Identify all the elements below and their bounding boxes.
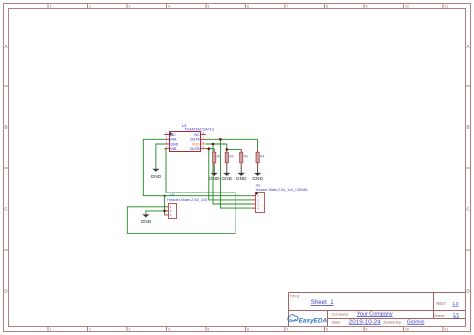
svg-text:7: 7 <box>287 5 289 9</box>
wire OUTA horizontal to R4 column <box>206 138 258 140</box>
svg-text:6: 6 <box>247 328 249 332</box>
svg-text:9: 9 <box>366 5 368 9</box>
wire R2 top across to R3 top <box>227 148 241 151</box>
ground at U1 GND pin <box>151 169 162 180</box>
svg-text:VDD: VDD <box>192 142 200 146</box>
ground under R2 <box>222 166 233 183</box>
EasyEDA logo text <box>299 317 328 324</box>
svg-text:GND: GND <box>222 176 233 182</box>
ground under R3 <box>236 166 247 183</box>
EasyEDA logo cloud icon <box>288 315 298 322</box>
U1 left pin names <box>170 133 178 151</box>
title block date value <box>349 320 381 326</box>
H2 designator label <box>170 193 174 197</box>
svg-text:8: 8 <box>326 5 328 9</box>
wire OUTA down to R4 top <box>257 139 259 149</box>
svg-text:TITLE:: TITLE: <box>290 295 300 299</box>
svg-text:GND: GND <box>236 176 247 182</box>
wire VDD horizontal <box>206 143 227 145</box>
svg-text:9: 9 <box>366 328 368 332</box>
title block Date label <box>332 320 341 324</box>
svg-text:Header-Male-2.54_1x4_C59481: Header-Male-2.54_1x4_C59481 <box>256 188 308 192</box>
svg-text:Date:: Date: <box>332 320 341 324</box>
wire junction down to H2 pin3 <box>164 211 166 215</box>
svg-text:R3: R3 <box>244 155 248 159</box>
wire OUTB branch down to H3 pin2 <box>209 149 252 200</box>
ground near H2 <box>141 214 152 225</box>
svg-text:INA: INA <box>170 138 177 142</box>
svg-text:B: B <box>4 125 7 130</box>
wire VDD down to R2 top <box>226 144 228 149</box>
wire OUTB horizontal <box>206 148 214 151</box>
wire OUTA branch down to H3 pin4 <box>220 139 251 208</box>
svg-text:3: 3 <box>129 5 131 9</box>
svg-text:Sheet:: Sheet: <box>434 314 445 318</box>
svg-text:Drawn By:: Drawn By: <box>384 319 402 324</box>
wire U1 GND pin to ground <box>156 144 164 169</box>
H3 part label Header-Male-2.54_1x4_C59481 <box>256 188 308 192</box>
svg-text:GND: GND <box>209 176 220 182</box>
U1 right pin stubs 8-5 <box>201 135 206 149</box>
resistor R4 label <box>260 155 264 159</box>
svg-text:4: 4 <box>168 328 170 332</box>
svg-text:R1: R1 <box>217 155 221 159</box>
junction at H2 pin2 <box>163 210 166 213</box>
U1 value label TC4427ACOA713 <box>185 127 214 131</box>
title block sheet name value <box>311 300 334 306</box>
svg-text:GND: GND <box>170 142 178 146</box>
ground under R4 <box>252 166 263 183</box>
svg-text:H2: H2 <box>170 193 174 197</box>
svg-text:5: 5 <box>208 5 210 9</box>
H3 pin stubs <box>252 196 256 208</box>
title block drawn-by value <box>407 320 425 326</box>
title block REV label <box>436 301 446 306</box>
U1 right pin names <box>190 133 201 151</box>
resistor R3 <box>240 150 243 166</box>
H2 part label Header-Male-2.54_1x3 <box>167 198 207 202</box>
title block TITLE label <box>290 295 300 299</box>
svg-text:EasyEDA: EasyEDA <box>299 317 328 324</box>
U1 reference designator label <box>182 123 188 128</box>
svg-text:NC: NC <box>170 133 176 137</box>
H2 pin stubs <box>165 207 169 215</box>
svg-text:7: 7 <box>287 328 289 332</box>
svg-text:11: 11 <box>445 328 449 332</box>
title block revision value <box>452 301 459 307</box>
wire junction to GND near H2 <box>146 211 165 215</box>
wire VDD branch down to H3 pin3 <box>213 144 252 204</box>
svg-text:10: 10 <box>405 5 409 9</box>
svg-text:TC4427ACOA713: TC4427ACOA713 <box>185 127 214 131</box>
svg-text:INB: INB <box>170 147 177 151</box>
connector H3 body <box>256 193 265 213</box>
resistor R2 <box>225 149 228 165</box>
svg-text:GND: GND <box>151 174 162 180</box>
svg-text:1: 1 <box>50 5 52 9</box>
svg-text:6: 6 <box>247 5 249 9</box>
title block Drawn By label <box>384 319 402 324</box>
svg-text:GND: GND <box>141 219 152 225</box>
connector H2 body <box>169 204 177 219</box>
H3 pin1 anchor dot <box>256 192 258 194</box>
svg-text:2: 2 <box>89 328 91 332</box>
svg-text:5: 5 <box>208 328 210 332</box>
wire INA from U1 down and across to H3 pin1 <box>143 139 251 195</box>
IC U1 <box>170 132 201 152</box>
svg-text:REV:: REV: <box>436 301 446 306</box>
resistor R1 <box>213 150 216 166</box>
junction on H3 pin1 wire <box>164 195 166 197</box>
svg-text:11: 11 <box>445 5 449 9</box>
title block sheet number value <box>453 313 460 319</box>
svg-text:4: 4 <box>168 5 170 9</box>
svg-text:Company:: Company: <box>332 312 349 316</box>
svg-text:10: 10 <box>405 328 409 332</box>
resistor R3 label <box>244 155 248 159</box>
ground under R1 <box>209 166 220 183</box>
svg-text:3: 3 <box>129 328 131 332</box>
wire branch from INA line down to H2 pin2 junction <box>164 196 166 211</box>
junction on OUTB wire <box>208 147 211 150</box>
wire INB big loop to H2 pin1 <box>127 149 235 234</box>
resistor R4 <box>256 149 259 165</box>
svg-text:B: B <box>466 125 469 130</box>
svg-text:1: 1 <box>50 328 52 332</box>
svg-text:Header-Male-2.54_1x3: Header-Male-2.54_1x3 <box>167 198 207 202</box>
junction on VDD wire <box>212 143 215 146</box>
svg-text:8: 8 <box>326 328 328 332</box>
title block company value <box>357 311 393 317</box>
svg-text:R2: R2 <box>229 155 233 159</box>
resistor R1 label <box>217 155 221 159</box>
resistor R2 label <box>229 155 233 159</box>
U1 pin numbers <box>166 131 205 149</box>
svg-text:R4: R4 <box>260 155 264 159</box>
junction on OUTA wire <box>219 138 222 141</box>
H3 pin numbers <box>257 194 259 210</box>
title block Sheet label <box>434 314 445 318</box>
svg-text:NC: NC <box>194 133 200 137</box>
svg-text:2: 2 <box>89 5 91 9</box>
svg-text:OUTB: OUTB <box>190 147 201 151</box>
U1 left pin stubs 1-4 <box>164 135 169 149</box>
svg-text:GND: GND <box>252 176 263 182</box>
H2 pin numbers <box>170 205 172 217</box>
svg-text:OUTA: OUTA <box>190 138 200 142</box>
title block Company label <box>332 312 349 316</box>
H3 designator label <box>256 184 260 188</box>
junction at R2 top <box>226 148 229 151</box>
title block border lines <box>289 293 466 327</box>
